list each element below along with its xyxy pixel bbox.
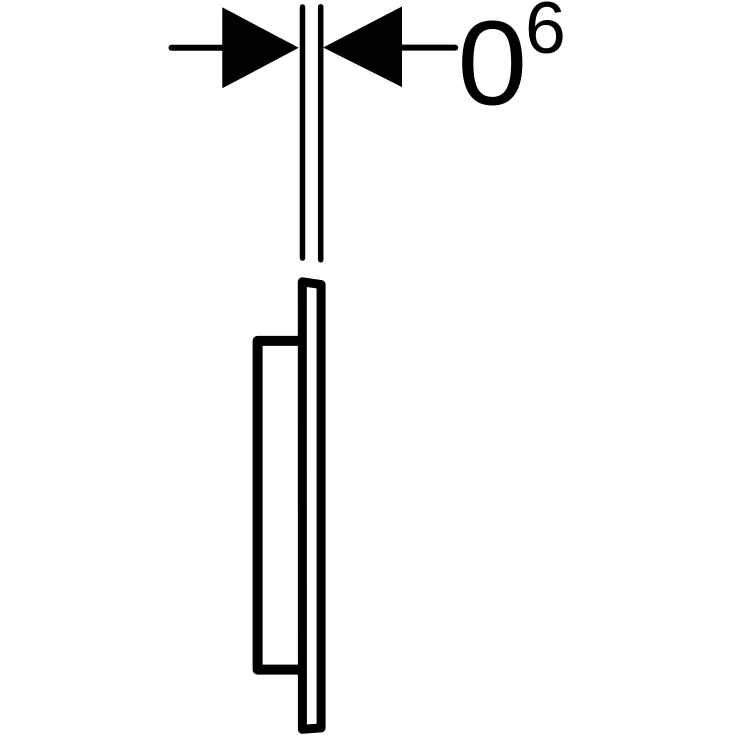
flush plate side profile	[302, 282, 321, 730]
dimension leader line right	[403, 45, 456, 51]
mounting frame bracket	[258, 341, 306, 670]
dimension value 0	[457, 0, 527, 131]
dimension leader line left	[172, 45, 224, 51]
svg-text:0: 0	[457, 0, 527, 131]
svg-text:6: 6	[525, 0, 566, 69]
extension line right	[318, 7, 324, 260]
arrowhead right	[323, 7, 402, 88]
extension line left	[300, 7, 306, 258]
arrowhead left	[222, 7, 298, 88]
